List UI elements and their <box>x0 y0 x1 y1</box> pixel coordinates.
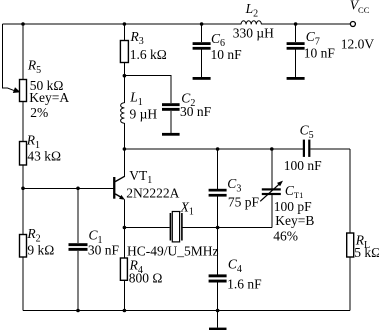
power terminal Vcc <box>350 22 355 27</box>
resistor R4 <box>120 258 127 280</box>
wire R5 to R1 <box>22 102 24 142</box>
resistor RL <box>347 233 354 257</box>
label CT1 <box>285 183 303 200</box>
wire C1 top lead <box>77 188 79 243</box>
value label 2N2222A <box>126 186 179 201</box>
svg-text:10 nF: 10 nF <box>211 47 243 62</box>
capacitor C6 <box>193 42 211 50</box>
junction dot ground rail / C4 <box>216 309 220 313</box>
value label 30 nF (C2) <box>180 104 212 119</box>
label C5 <box>300 123 314 141</box>
wire C2 bottom lead <box>170 111 172 133</box>
label R3 <box>130 29 144 47</box>
wire L1 to collector node <box>123 123 125 149</box>
wire ground rail <box>23 310 350 312</box>
value label Key=B <box>275 213 314 228</box>
value label 9 uH <box>130 106 158 121</box>
wire base of VT1 <box>23 187 113 189</box>
svg-text:5 kΩ: 5 kΩ <box>354 245 379 260</box>
svg-text:800 Ω: 800 Ω <box>129 271 163 286</box>
resistor R1 <box>20 142 27 166</box>
value label 9 kOhm <box>27 242 54 257</box>
junction dot R3/L1/C2 node <box>123 74 127 78</box>
variable capacitor CT1 <box>260 181 283 202</box>
value label 100 nF <box>284 158 322 173</box>
wire C3 top lead <box>217 149 219 189</box>
label X1 <box>180 199 194 217</box>
svg-text:100 pF: 100 pF <box>274 199 312 214</box>
label L2 <box>245 1 259 19</box>
wire C4 bottom lead <box>217 283 219 311</box>
wire left wiper branch of R5 <box>3 24 16 91</box>
junction dot base wire left <box>21 187 25 191</box>
label L1 <box>129 90 143 108</box>
value label 100 pF <box>274 199 312 214</box>
junction dot top rail / R3 column <box>123 22 127 26</box>
capacitor C7 <box>287 42 305 50</box>
value label 330 uH <box>233 25 274 40</box>
label VT1 <box>129 168 152 186</box>
junction dot C1 top <box>76 187 80 191</box>
resistor R2 <box>20 235 27 258</box>
wire R3 top lead <box>123 24 125 41</box>
svg-text:100 nF: 100 nF <box>284 158 322 173</box>
value label 10 nF (C6) <box>211 47 243 62</box>
junction dot top rail / R5 column <box>21 22 25 26</box>
svg-text:10 nF: 10 nF <box>304 45 336 60</box>
svg-text:2%: 2% <box>30 105 48 120</box>
wire R1 to R2 through base node <box>22 165 24 235</box>
resistor R3 <box>120 41 128 63</box>
svg-text:1.6 nF: 1.6 nF <box>227 276 262 291</box>
value label 1.6 nF <box>227 276 262 291</box>
svg-text:12.0V: 12.0V <box>341 37 375 52</box>
potentiometer R5 <box>20 80 27 102</box>
wire node to C2 <box>124 76 170 104</box>
wire top rail right to Vcc terminal <box>261 23 350 25</box>
label R2 <box>26 226 40 244</box>
value label 5 kOhm <box>354 245 379 260</box>
wire C7 bottom lead <box>295 50 297 77</box>
svg-text:46%: 46% <box>273 229 298 244</box>
value label 10 nF (C7) <box>304 45 336 60</box>
wire ground stub <box>217 311 219 328</box>
value label 75 pF <box>228 195 260 210</box>
value label 50 kOhm <box>30 78 64 93</box>
capacitor C2 <box>162 103 180 111</box>
value label 30 nF (C1) <box>88 242 120 257</box>
ground symbol under C6 <box>193 77 211 80</box>
capacitor C3 <box>209 189 227 197</box>
junction dot top rail / C6 <box>200 22 204 26</box>
value label 2% <box>30 105 48 120</box>
svg-text:9 kΩ: 9 kΩ <box>27 242 54 257</box>
capacitor C4 <box>209 274 227 282</box>
wire emitter lead down <box>123 200 125 228</box>
svg-text:9 µH: 9 µH <box>130 106 158 121</box>
junction dot R4 bottom <box>123 309 127 313</box>
capacitor C1 <box>69 243 88 251</box>
wire top rail left (Vcc net) <box>3 23 242 25</box>
junction dot C3/C4 node <box>216 226 220 230</box>
wire C3 bottom node to CT1 bottom <box>218 227 272 229</box>
label C2 <box>181 91 195 109</box>
wire RL to ground rail <box>349 257 351 311</box>
value label 800 Ohm <box>129 271 163 286</box>
junction dot collector node <box>123 147 127 151</box>
wire CT1 top lead <box>271 149 273 188</box>
svg-text:30 nF: 30 nF <box>180 104 212 119</box>
junction dot emitter node <box>123 226 127 230</box>
wire C3 bottom lead <box>217 197 219 228</box>
label C7 <box>306 29 320 47</box>
ground symbol main <box>209 328 227 330</box>
label R1 <box>26 132 40 150</box>
label C3 <box>227 176 241 194</box>
value label 1.6 kOhm <box>130 47 167 62</box>
wiper arrowhead of R5 <box>13 87 21 93</box>
inductor L2 <box>241 21 261 25</box>
inductor L1 <box>121 103 125 123</box>
svg-text:Key=B: Key=B <box>275 213 314 228</box>
label R4 <box>129 258 143 276</box>
svg-text:HC-49/U_5MHz: HC-49/U_5MHz <box>127 244 219 259</box>
value label Key=A <box>29 90 69 105</box>
crystal X1 <box>170 212 183 242</box>
label C4 <box>228 257 242 275</box>
wire R5 column top <box>22 24 24 80</box>
wire CT1 bottom lead <box>271 195 273 228</box>
wire C7 top lead <box>295 24 297 42</box>
svg-text:330 µH: 330 µH <box>233 25 274 40</box>
label RL <box>355 233 370 251</box>
wire emitter node to R4 <box>123 228 125 259</box>
junction dot CT1 top <box>270 147 274 151</box>
label C1 <box>89 228 103 246</box>
svg-text:75 pF: 75 pF <box>228 195 260 210</box>
svg-text:30 nF: 30 nF <box>88 242 120 257</box>
value label HC-49/U_5MHz <box>127 244 219 259</box>
wire C5 to right column <box>310 148 350 150</box>
wire C6 top lead <box>201 24 203 42</box>
wire R3 bottom to L1 node <box>123 63 125 103</box>
transistor VT1 <box>113 176 125 200</box>
wire collector row to C5 <box>124 148 302 150</box>
value label 12.0V <box>341 37 375 52</box>
wire emitter row to crystal <box>124 227 169 229</box>
junction dot top rail / C7 <box>294 22 298 26</box>
ground symbol under C2 <box>162 133 180 136</box>
wire right column to RL <box>349 149 351 233</box>
wire C6 bottom lead <box>201 50 203 77</box>
label C6 <box>211 31 225 49</box>
wire R2 to ground rail <box>22 257 24 311</box>
wire collector stub <box>123 149 125 176</box>
wire crystal to C3 bottom node <box>183 227 218 229</box>
junction dot C3 top <box>216 147 220 151</box>
wire C1 bottom lead <box>77 251 79 311</box>
svg-text:2N2222A: 2N2222A <box>126 186 179 201</box>
value label 46% <box>273 229 298 244</box>
value label 43 kOhm <box>27 149 61 164</box>
junction dot C1 bottom on ground rail <box>76 309 80 313</box>
label Vcc <box>350 0 370 15</box>
wire R4 to ground rail <box>123 280 125 310</box>
label R5 <box>27 57 41 75</box>
svg-text:43 kΩ: 43 kΩ <box>27 149 61 164</box>
ground symbol under C7 <box>287 77 305 80</box>
svg-text:Key=A: Key=A <box>29 90 69 105</box>
svg-text:1.6 kΩ: 1.6 kΩ <box>130 47 167 62</box>
wire C4 top lead <box>217 228 219 275</box>
capacitor C5 <box>303 140 311 157</box>
